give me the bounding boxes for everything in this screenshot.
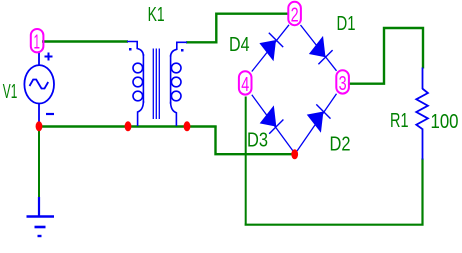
svg-text:D4: D4 (229, 34, 250, 56)
junction dot secondary bottom (184, 121, 191, 131)
wire ground bus down-right to bridge bottom (216, 126, 295, 155)
minus sign (46, 113, 54, 115)
node 3 (336, 70, 349, 95)
primary phase dot (129, 48, 132, 51)
svg-text:D3: D3 (247, 129, 268, 151)
diode D4 cathode bar (269, 33, 283, 47)
wire ground bus bottom (39, 125, 217, 128)
svg-text:2: 2 (291, 5, 299, 27)
voltage source V1 (24, 52, 54, 123)
wire node3 to R1 top (349, 28, 424, 84)
secondary phase dot (181, 49, 184, 52)
diode D3 cathode bar (269, 120, 283, 134)
transformer K1 primary winding (127, 42, 143, 127)
transformer core (153, 49, 159, 120)
node 4 (239, 71, 252, 96)
diode D4 triangle (259, 31, 283, 61)
wire node4 down to bottom rail (245, 97, 247, 225)
plus sign (45, 56, 53, 58)
junction dot V1 bottom (36, 121, 43, 131)
diode D3 triangle (260, 105, 284, 135)
node 1 (31, 29, 44, 54)
diode D1 triangle (309, 36, 333, 66)
diode D2 cathode bar (316, 104, 330, 118)
wire V1 minus down to ground (38, 126, 40, 198)
wire node1 to transformer primary top (42, 40, 128, 43)
junction dot bridge bottom (291, 149, 298, 159)
svg-text:D1: D1 (337, 13, 356, 35)
svg-text:100: 100 (431, 111, 459, 133)
svg-text:1: 1 (34, 32, 41, 54)
diode D1 cathode bar (318, 50, 332, 64)
junction dot primary bottom (125, 121, 132, 131)
svg-text:3: 3 (339, 73, 347, 95)
node 2 (288, 2, 301, 27)
ground (27, 197, 55, 236)
svg-text:4: 4 (241, 74, 249, 96)
svg-text:V1: V1 (3, 81, 17, 103)
diode D2 triangle (307, 102, 331, 132)
wire secondary top to node2 (186, 14, 289, 43)
svg-text:D2: D2 (330, 133, 351, 155)
svg-text:R1: R1 (390, 110, 409, 132)
wire bottom rail to R1 (245, 159, 423, 225)
bridge wire D4 (node4 to node2) (252, 25, 289, 72)
bridge wire D3 (node4 to bottom) (252, 95, 295, 153)
bridge wire D2 (bottom to node3) (295, 94, 336, 154)
transformer K1 secondary winding (171, 42, 187, 126)
svg-text:K1: K1 (148, 4, 165, 26)
bridge wire D1 (node2 to node3) (301, 25, 337, 71)
resistor R1 (416, 68, 428, 160)
